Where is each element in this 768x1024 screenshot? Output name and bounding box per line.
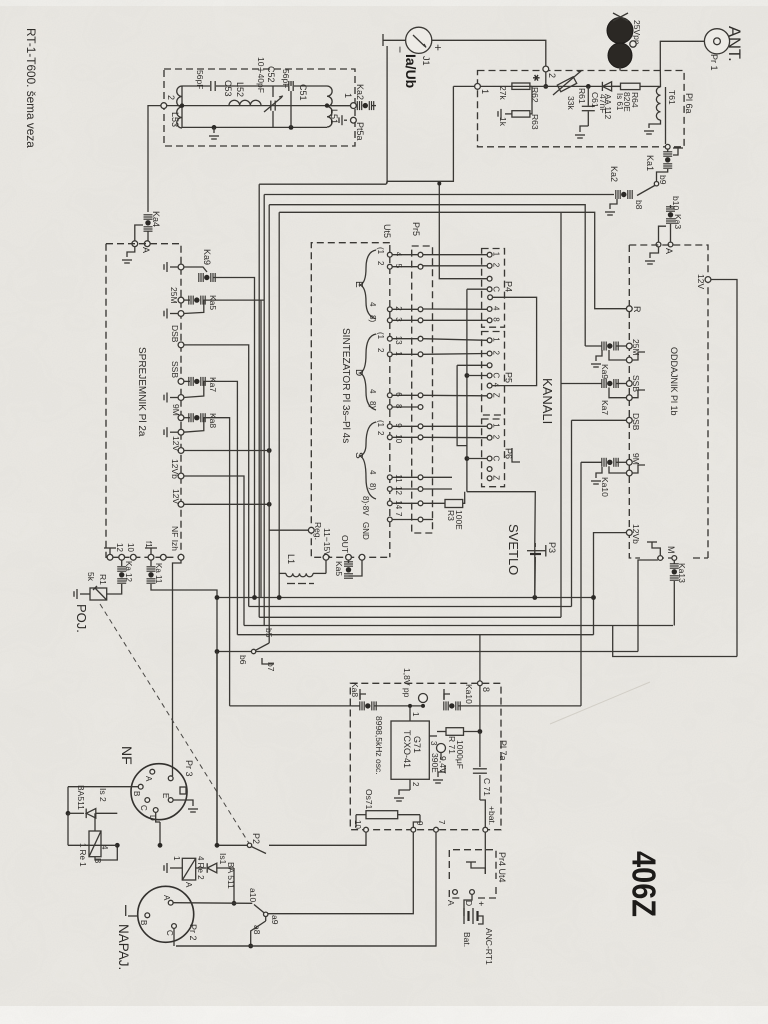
terminal NF Izh [178, 554, 184, 560]
wires Pr5 to P6 [423, 425, 487, 427]
wire pin7 down [176, 832, 436, 946]
wire Ka8 link [184, 418, 204, 433]
terminal Reg on box edge [308, 527, 314, 533]
wire P5 pin3 elbow [457, 364, 487, 366]
trimmer capacitor C52 [270, 101, 272, 111]
svg-text:Pl 6a: Pl 6a [684, 93, 694, 114]
svg-text:2: 2 [492, 435, 501, 440]
module box Pl 6a [478, 71, 685, 147]
wire J1 plus to Pl6a pin2 [432, 40, 546, 66]
svg-text:1: 1 [492, 337, 501, 342]
wire J1 minus down to bus [386, 46, 388, 184]
svg-text:D: D [464, 900, 474, 906]
ground bracket at M [652, 542, 660, 555]
wire C71 to bat [480, 800, 485, 827]
svg-text:AA 112: AA 112 [603, 94, 612, 120]
svg-text:a9: a9 [270, 915, 280, 925]
wire Ka5 link to second circle [349, 560, 363, 576]
terminal 12V oddajnik [705, 277, 711, 283]
wire P4 pin3 from top bus [439, 184, 487, 279]
wire diode to Re1 [94, 813, 96, 831]
svg-text:1000μF: 1000μF [455, 740, 465, 769]
wire OUT down to L1 line [325, 560, 327, 574]
svg-text:f1: f1 [144, 541, 153, 548]
svg-text:+bat.: +bat. [487, 806, 497, 825]
contact Ka13 [673, 561, 675, 564]
svg-text:Bat.: Bat. [462, 932, 472, 947]
svg-text:10: 10 [126, 543, 135, 552]
svg-text:56pF: 56pF [195, 70, 205, 89]
svg-text:C: C [139, 805, 148, 811]
wire Ka12 to pot [107, 584, 122, 594]
pins of P5 [487, 338, 492, 343]
svg-text:L52: L52 [235, 82, 245, 97]
terminal 8 on box top [478, 681, 483, 686]
svg-text:7: 7 [394, 512, 403, 517]
relay Re1 [89, 831, 101, 857]
wire bundle 25M down [260, 300, 262, 597]
svg-text:T61: T61 [667, 90, 677, 105]
svg-text:KANALI: KANALI [540, 378, 555, 424]
inductor L52 [229, 100, 261, 105]
svg-text:13: 13 [394, 336, 403, 345]
wire mid rail [166, 105, 350, 107]
switch b9 [654, 182, 658, 186]
ground at R1 [80, 593, 90, 595]
svg-text:POJ.: POJ. [74, 604, 89, 633]
wire Ka4 lower stub [147, 231, 149, 241]
contact Ka1 [667, 149, 669, 152]
contact Ka12 [121, 560, 123, 566]
svg-text:P4: P4 [504, 281, 514, 292]
wire 9M riser to TCXO feed [580, 462, 582, 706]
svg-text:SINTEZATOR Pl 3s–Pl 4s: SINTEZATOR Pl 3s–Pl 4s [340, 328, 351, 443]
wire U3 left down through 12V taps to b5 [268, 205, 270, 643]
svg-text:2: 2 [166, 95, 176, 100]
svg-text:8: 8 [492, 317, 501, 322]
svg-text:L51: L51 [329, 109, 339, 124]
terminal 12V second [178, 501, 184, 507]
circle 9.4V [437, 744, 446, 753]
svg-text:1k: 1k [498, 117, 508, 127]
terminals A on oddajnik top [656, 242, 661, 247]
svg-text:Ka5: Ka5 [334, 561, 344, 576]
wire 25M to bundle [203, 299, 265, 301]
sprejemnik bottom terminals [107, 554, 113, 560]
switch a9 [264, 912, 268, 916]
contact Ka8 [184, 417, 190, 419]
resistor R71 390E [437, 731, 446, 733]
core dashes of L1 [287, 583, 295, 585]
svg-text:Ka13: Ka13 [677, 563, 687, 583]
wire Y6 and right riser [613, 626, 737, 657]
contact Ka2 right of filter [356, 101, 358, 110]
wire bus U4 to R oddajnik [279, 212, 627, 308]
wire Ka3 stub [670, 224, 672, 242]
wire L1 to OUT riser [313, 572, 326, 574]
svg-text:100E: 100E [454, 510, 464, 530]
resistor R62 27k [512, 83, 530, 89]
svg-text:2: 2 [376, 431, 385, 436]
svg-text:A: A [446, 900, 456, 906]
svg-text:C: C [492, 286, 501, 292]
wire 12V second [184, 503, 271, 505]
terminal R [626, 306, 632, 312]
terminal 9 on box bottom [411, 827, 416, 832]
svg-text:(1: (1 [376, 332, 385, 340]
wire 12Vb to bundle [184, 476, 244, 626]
wire P3 riser [534, 543, 536, 598]
svg-text:C: C [165, 930, 174, 936]
svg-text:27k: 27k [498, 86, 508, 100]
svg-text:✱: ✱ [531, 74, 541, 82]
svg-text:2: 2 [411, 782, 420, 787]
ground at Ka10 tcxo [444, 694, 450, 700]
wire DSB riser down [571, 420, 573, 606]
svg-text:9: 9 [394, 423, 403, 428]
svg-text:3: 3 [394, 317, 403, 322]
svg-text:6: 6 [394, 392, 403, 397]
wire C-link vertical [466, 289, 468, 492]
wire DSB to bundle [184, 345, 249, 607]
wire P4 C from link vertical [467, 288, 487, 290]
terminal 10 on box bottom [364, 827, 369, 832]
terminal 7 on box bottom [434, 827, 439, 832]
svg-text:406Z: 406Z [626, 851, 663, 917]
svg-text:8998,5kHz osc.: 8998,5kHz osc. [374, 716, 384, 775]
wire bus b6 to M riser [256, 651, 638, 653]
ground at Pr2 [125, 905, 127, 916]
contact Ka10 tcxo [443, 701, 445, 710]
wire crystal to pin10 [355, 815, 357, 827]
pin 2 of tcxo [409, 779, 411, 790]
wire C52 C51 stems [272, 86, 274, 97]
wire terminal2 down to Ka4 [148, 106, 161, 212]
svg-text:Ka8: Ka8 [350, 682, 360, 697]
svg-text:Ka2: Ka2 [355, 84, 365, 100]
ground at pin2 [399, 790, 410, 795]
terminal 1 of Pl6a [475, 84, 481, 90]
svg-text:Ka4: Ka4 [151, 211, 161, 227]
pins of P6 [487, 424, 492, 429]
ground bracket at 9M [632, 465, 645, 473]
contact Ka9 [184, 267, 207, 272]
diode AA112 Is61 [602, 82, 611, 91]
ground at R71 [440, 753, 442, 761]
connector box P5 [482, 332, 505, 416]
pin 3 of tcxo [429, 735, 437, 737]
ground inside sprejemnik [127, 246, 135, 257]
svg-text:Pr5: Pr5 [411, 222, 421, 236]
wire Ka7 link [184, 381, 204, 397]
svg-text:A: A [664, 248, 674, 254]
terminal 2 of filter [161, 103, 167, 109]
wire to Pt5a [371, 105, 376, 107]
relay Re2 [182, 858, 195, 880]
pin 1 of tcxo [409, 706, 411, 721]
wire TCXO feed [230, 705, 352, 707]
svg-text:GND: GND [361, 522, 370, 540]
wire bottom bus to pin7 riser [176, 945, 436, 947]
svg-text:9M: 9M [171, 404, 181, 416]
svg-text:1: 1 [172, 856, 181, 861]
wire Pr3 D to P2 bus [159, 822, 161, 845]
svg-text:R61: R61 [577, 88, 587, 104]
wire Ka5 link [184, 300, 204, 313]
wire a8 to bus [251, 921, 266, 946]
wire pin9 down [268, 832, 413, 914]
inductor L53 [177, 86, 182, 128]
wire bus U1 from J1 minus [387, 86, 453, 181]
connector Pr2 NAPAJ [138, 886, 194, 942]
wire T61 to Ka1 terminal [665, 120, 667, 144]
diode Is1 BA511 [196, 867, 206, 869]
svg-text:2: 2 [492, 263, 501, 268]
ground at Ka9 oddajnik [596, 350, 602, 361]
svg-text:DSB: DSB [170, 325, 180, 343]
svg-text:Ka3: Ka3 [673, 214, 683, 229]
svg-text:8): 8) [368, 483, 377, 490]
svg-text:b9: b9 [658, 175, 668, 185]
wire SSB to bundle [203, 381, 238, 634]
svg-text:P3: P3 [547, 542, 557, 553]
svg-text:25M: 25M [169, 287, 179, 304]
capacitor C51 [288, 81, 290, 91]
inductor L1 [279, 572, 286, 574]
wire Re1 bus link [68, 844, 117, 846]
wire P5pin3 vertical [457, 365, 467, 445]
wire Reg tap [269, 529, 308, 531]
svg-text:8)·8V: 8)·8V [361, 496, 370, 516]
pins of Pr2 [168, 900, 173, 905]
pins of Pr3 [150, 769, 155, 774]
svg-text:E: E [353, 281, 364, 288]
svg-text:(1: (1 [376, 420, 385, 428]
oscillator TCXO-41 G71 [391, 721, 429, 779]
transformer T61 [656, 87, 660, 120]
wire left riser [67, 787, 69, 814]
svg-text:Ka 11: Ka 11 [154, 563, 163, 584]
svg-text:Ka7: Ka7 [600, 400, 610, 415]
meter J1 Ia/Ub [406, 27, 432, 53]
wire pin E to ground [173, 800, 193, 806]
wire ANT to T61 [660, 41, 704, 68]
svg-text:1: 1 [480, 89, 490, 94]
svg-text:Pr 3: Pr 3 [184, 760, 194, 777]
svg-text:Ka7: Ka7 [208, 377, 218, 392]
link Ka9 to second circle [609, 350, 627, 360]
svg-text:B: B [132, 791, 141, 796]
svg-text:14: 14 [394, 500, 403, 509]
pins Ut5 and Pr5 with links [387, 252, 392, 257]
svg-text:7: 7 [437, 820, 446, 825]
svg-text:ANC-RT1: ANC-RT1 [484, 928, 494, 965]
svg-text:2: 2 [547, 73, 557, 78]
wire pin8 to R71 [479, 706, 481, 732]
pin column Ut5 dashed line [389, 245, 391, 557]
wire Ka8 to pin1 [374, 705, 423, 707]
wire 9M to TCXO bus [203, 418, 230, 706]
wire bus U3 to 25M oddajnik [269, 205, 585, 346]
contact b7 bracket [262, 658, 274, 664]
wire blob to box [619, 67, 621, 71]
terminal 1 of filter [351, 103, 357, 109]
wire battery minus [478, 916, 484, 924]
terminal Ka5 pair on box bottom [346, 554, 352, 560]
connector Pr1 ANT [704, 29, 729, 54]
ground at Re2 [170, 867, 182, 869]
wire pin10 to P2 [269, 832, 366, 845]
wire row7 stub [423, 519, 433, 521]
wires Pr5 to P5 [423, 339, 487, 341]
wire P6 C [467, 458, 487, 460]
connector Pr3 NF [131, 764, 187, 820]
wire vertical 217 down [216, 652, 218, 846]
svg-text:Ka9: Ka9 [202, 249, 212, 265]
wire crystal right down to 9 [413, 815, 420, 828]
terminal 9M pair oddajnik [626, 459, 632, 465]
wire NF bus [217, 844, 247, 846]
diode Is2 BA511 [68, 812, 84, 814]
terminal 12Vb [178, 473, 184, 479]
wire L51 to terminal 1 [327, 105, 351, 107]
svg-text:A: A [144, 776, 153, 782]
terminal SSB pair oddajnik [626, 381, 632, 387]
wire Ka4 to A terminal [135, 225, 143, 241]
resistor R64 820E [612, 85, 621, 87]
wire bottom rail [182, 126, 327, 128]
resistor R63 1k [512, 111, 530, 117]
wire R62 R63 join [530, 85, 532, 87]
terminal on Pl6a bottom [665, 144, 670, 149]
svg-text:+: + [431, 44, 445, 51]
wires Pr5 to P4 [423, 254, 487, 256]
ground bracket at SSB [632, 390, 645, 398]
svg-text:2: 2 [492, 351, 501, 356]
contact Ka5 [184, 299, 190, 301]
connector box P4 [482, 249, 505, 328]
wire bat down to Pr4 [484, 832, 486, 874]
filter module box Pl5a [164, 69, 355, 146]
svg-text:390E: 390E [430, 753, 440, 773]
wire pin D down [156, 812, 160, 822]
svg-text:Ka5: Ka5 [208, 295, 218, 310]
svg-text:12: 12 [394, 486, 403, 495]
svg-text:Ut5: Ut5 [382, 224, 392, 238]
terminal DSB oddajnik [626, 417, 632, 423]
module box Pl 7a [350, 683, 501, 829]
svg-text:10∔40pF: 10∔40pF [256, 57, 266, 93]
wire DSB to riser [572, 419, 627, 421]
junction b6 top [216, 650, 218, 652]
terminal 12V [178, 448, 184, 454]
svg-text:Pr4 Ut4: Pr4 Ut4 [497, 852, 507, 883]
terminal bat on box bottom [483, 827, 488, 832]
wire T61 top from ANT [659, 69, 661, 88]
svg-text:Os71: Os71 [364, 789, 374, 810]
svg-text:1 Re 1: 1 Re 1 [78, 843, 87, 867]
svg-text:4: 4 [368, 470, 377, 475]
svg-text:Ka 12: Ka 12 [124, 561, 133, 582]
svg-text:12V: 12V [171, 489, 181, 504]
svg-text:1,8V pp: 1,8V pp [402, 668, 412, 698]
svg-text:R1: R1 [98, 574, 108, 585]
svg-text:2: 2 [376, 261, 385, 266]
contact Ka10 oddajnik [601, 458, 603, 467]
ground mid tcxo [438, 765, 445, 777]
svg-text:M: M [666, 546, 676, 554]
capacitor C61 47nF [587, 86, 589, 105]
svg-text:A: A [141, 247, 151, 253]
svg-text:ANT.: ANT. [725, 26, 743, 62]
svg-text:P2: P2 [251, 833, 261, 844]
capacitor C53 [182, 85, 210, 87]
contact Ka9 oddajnik [601, 342, 603, 351]
wire P4C2 loop to P5 pin4 [492, 297, 536, 385]
wire U4 left down [278, 212, 280, 597]
svg-text:C53: C53 [223, 80, 233, 97]
terminal 2 of Pl6a [543, 66, 549, 72]
svg-text:11: 11 [394, 474, 403, 483]
svg-text:C: C [492, 373, 501, 379]
svg-text:ODDAJNIK Pl 1b: ODDAJNIK Pl 1b [669, 347, 679, 416]
pins of P4 [487, 252, 492, 257]
svg-text:J1: J1 [421, 56, 431, 66]
wire bus Y4 [244, 625, 673, 627]
ground inside oddajnik top [650, 247, 659, 258]
svg-text:1: 1 [492, 423, 501, 428]
svg-text:9M: 9M [631, 453, 641, 465]
svg-text:C: C [492, 456, 501, 462]
connector column Pr5 box [412, 246, 433, 533]
small circle at blob [630, 41, 636, 47]
svg-text:b8: b8 [634, 200, 644, 210]
svg-text:P5: P5 [504, 372, 514, 383]
switch blade b8 [637, 186, 655, 196]
svg-text:Pr 2: Pr 2 [188, 924, 198, 941]
svg-text:SSB: SSB [170, 361, 180, 378]
svg-text:A: A [184, 882, 193, 888]
wire pin1 junction [408, 704, 412, 708]
terminal bar at J1 minus [382, 34, 384, 46]
svg-text:12Vb: 12Vb [631, 524, 641, 544]
svg-text:1: 1 [492, 252, 501, 257]
svg-text:C52: C52 [266, 66, 276, 83]
svg-text:Pt5a: Pt5a [355, 122, 365, 141]
svg-text:Ia/Ub: Ia/Ub [403, 54, 419, 88]
svg-text:S: S [353, 452, 364, 459]
wire Ka3 to A terminal [659, 226, 667, 242]
svg-text:G71: G71 [412, 736, 422, 753]
svg-text:Z: Z [492, 475, 501, 480]
wire M riser [638, 560, 658, 652]
ground at R63 [505, 113, 512, 115]
svg-text:R63: R63 [530, 114, 540, 130]
module box ODDAJNIK Pl 1b [629, 245, 708, 558]
svg-text:(1: (1 [376, 247, 385, 255]
svg-text:Ka10: Ka10 [464, 684, 474, 704]
connector box Pr4 Ut4 [449, 850, 496, 898]
terminal Ka9 row with ground [170, 266, 178, 268]
wire NF Izh down to Pr3 [173, 560, 182, 776]
potentiometer R1 5k [90, 588, 107, 600]
power transistor blob 25Vpp [607, 18, 633, 44]
group brace D [360, 334, 376, 410]
svg-text:D: D [353, 369, 364, 376]
svg-text:12: 12 [115, 543, 124, 552]
wire J1 minus stub [383, 39, 406, 41]
svg-text:33k: 33k [566, 96, 576, 110]
